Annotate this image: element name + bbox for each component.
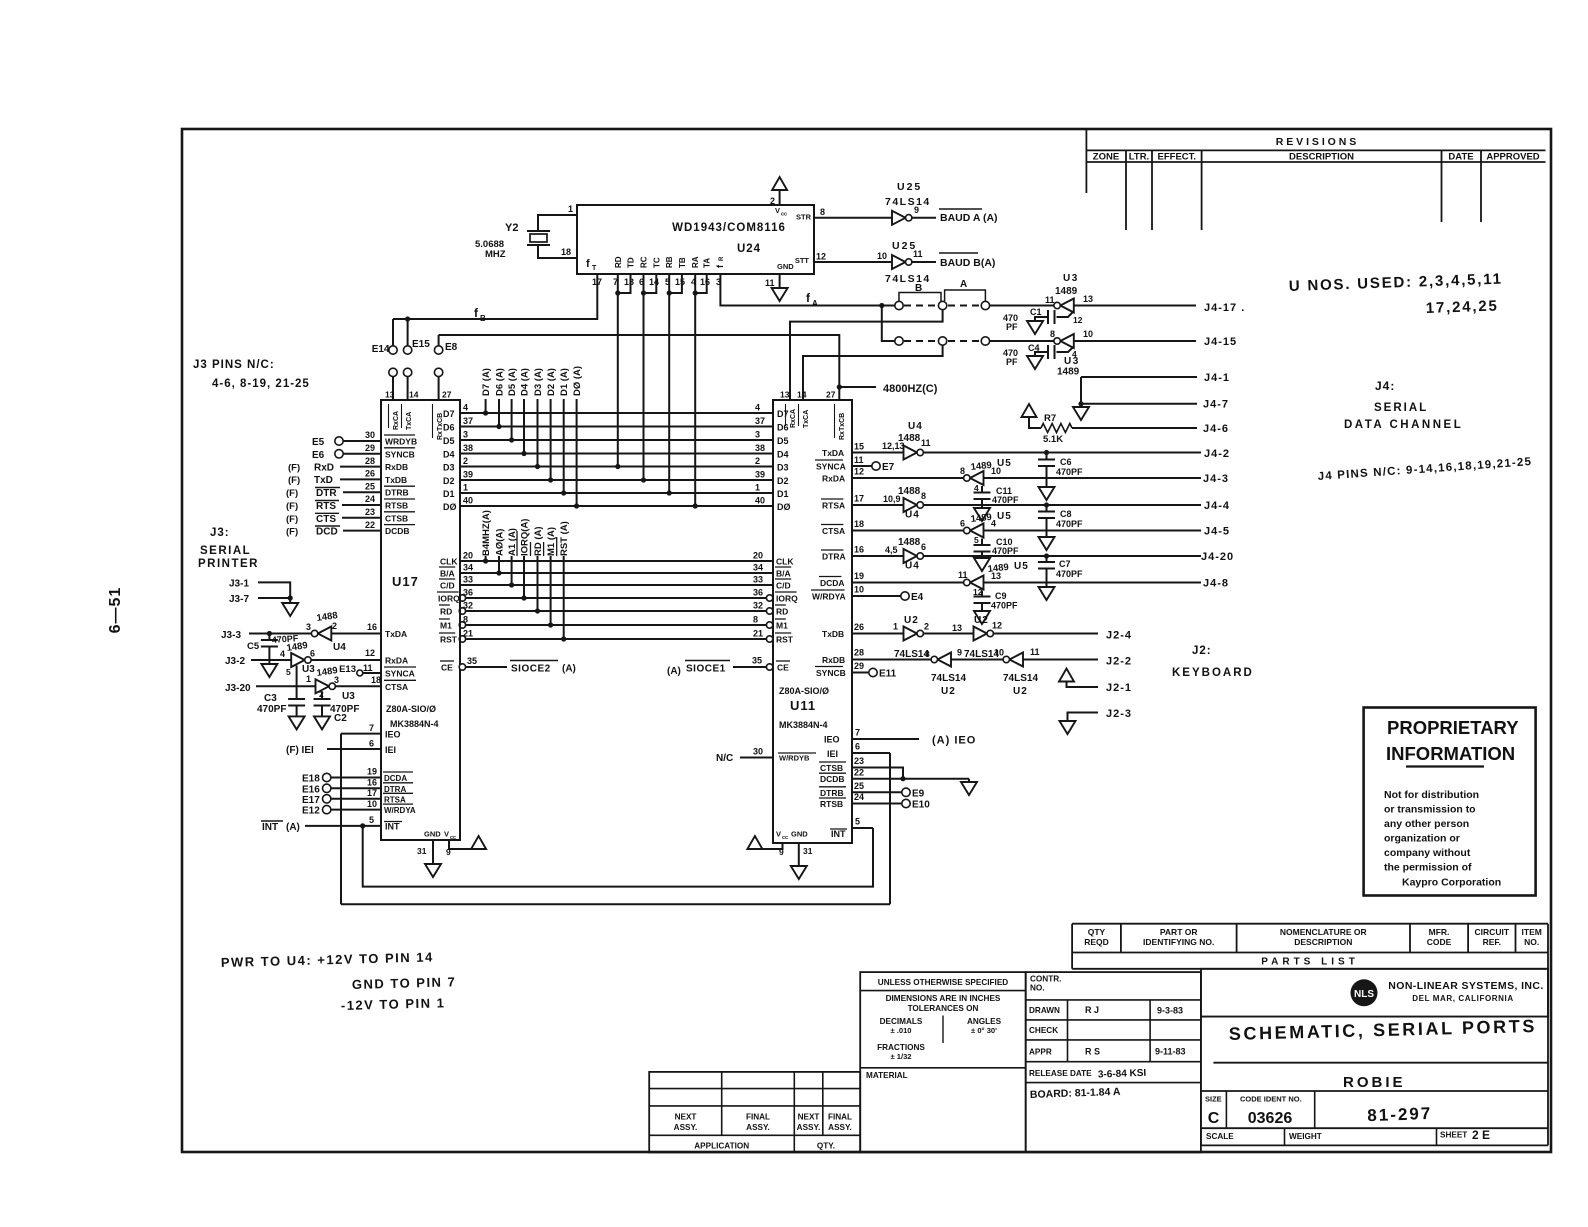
svg-text:U2: U2 — [941, 686, 956, 697]
svg-text:U3: U3 — [1064, 356, 1080, 367]
svg-text:TA: TA — [703, 258, 712, 268]
capacitor C5 470PF on J3-3 — [268, 634, 270, 641]
svg-text:E12: E12 — [302, 806, 320, 817]
resistor R7 5.1K pullup to J4-6 — [1022, 404, 1037, 417]
svg-text:31: 31 — [417, 846, 427, 856]
svg-text:10: 10 — [854, 585, 864, 595]
svg-text:10: 10 — [367, 799, 377, 809]
svg-text:11: 11 — [765, 278, 775, 288]
svg-text:SIOCE2: SIOCE2 — [511, 664, 551, 675]
svg-text:D2: D2 — [777, 476, 789, 486]
svg-text:(A) IEO: (A) IEO — [932, 735, 976, 747]
svg-text:D6: D6 — [443, 423, 455, 433]
ground stub J2-3 — [1068, 713, 1099, 722]
svg-text:30: 30 — [365, 430, 375, 440]
svg-text:470PF: 470PF — [1056, 467, 1083, 477]
svg-text:6: 6 — [921, 542, 926, 552]
inverter U2 74LS14 pins 9-8 — [938, 653, 952, 667]
svg-text:(F): (F) — [286, 514, 298, 525]
svg-text:27: 27 — [442, 390, 452, 400]
svg-text:D5: D5 — [777, 436, 789, 446]
svg-text:29: 29 — [365, 443, 375, 453]
svg-text:B: B — [480, 314, 486, 323]
svg-text:RB: RB — [665, 256, 674, 268]
svg-text:C2: C2 — [334, 713, 347, 724]
svg-text:74LS14: 74LS14 — [885, 196, 931, 208]
svg-text:33: 33 — [463, 575, 473, 585]
svg-text:10: 10 — [1083, 329, 1093, 339]
net label BAUD A (A) — [939, 208, 982, 210]
svg-text:C5: C5 — [247, 641, 260, 652]
U24 pins 16/4 tie loop — [695, 274, 707, 293]
capacitor C6 470PF on J4-2 line — [1044, 450, 1049, 455]
IC U11 Z80A-SIO/0 serial data channel + keyboard — [773, 400, 852, 843]
svg-text:2: 2 — [332, 621, 337, 631]
drawing frame border — [182, 129, 1551, 1152]
svg-text:D4 (A): D4 (A) — [520, 368, 531, 396]
svg-text:-12V TO PIN 1: -12V TO PIN 1 — [341, 995, 446, 1013]
svg-text:7: 7 — [369, 723, 374, 733]
svg-text:SIOCE1: SIOCE1 — [686, 664, 726, 675]
svg-text:INT: INT — [831, 829, 846, 839]
svg-text:PARTS LIST: PARTS LIST — [1261, 957, 1359, 968]
svg-text:TxCA: TxCA — [803, 410, 810, 428]
svg-text:SYNCB: SYNCB — [385, 449, 415, 459]
svg-text:W/RDYA: W/RDYA — [812, 592, 846, 602]
svg-text:DRAWN: DRAWN — [1029, 1006, 1060, 1015]
svg-text:Z80A-SIO/Ø: Z80A-SIO/Ø — [779, 686, 829, 696]
svg-text:CTSB: CTSB — [385, 513, 408, 523]
svg-text:32: 32 — [753, 601, 763, 611]
net label BAUD B (A) — [939, 252, 978, 254]
svg-text:C/D: C/D — [440, 581, 455, 591]
svg-text:40: 40 — [755, 496, 765, 506]
svg-text:SCALE: SCALE — [1206, 1132, 1234, 1141]
svg-text:35: 35 — [467, 656, 477, 666]
IC U17 Z80A-SIO/0 serial printer channel — [381, 400, 460, 840]
svg-text:D7 (A): D7 (A) — [481, 368, 492, 396]
svg-text:12: 12 — [365, 648, 375, 658]
capacitor C9 470PF on U5 response pin — [981, 591, 983, 597]
svg-text:18: 18 — [561, 247, 571, 257]
inverter U5 1489 pins 10-8 RxDA receiver — [852, 477, 967, 479]
svg-text:RxTxCB: RxTxCB — [839, 413, 846, 440]
svg-text:3: 3 — [306, 622, 311, 632]
svg-text:E14: E14 — [372, 344, 390, 355]
svg-text:CE: CE — [777, 663, 789, 673]
jumper bracket B — [899, 293, 941, 302]
svg-text:IEO: IEO — [824, 735, 840, 745]
svg-text:25: 25 — [365, 482, 375, 492]
svg-text:470PF: 470PF — [992, 546, 1019, 556]
svg-text:RxCA: RxCA — [393, 411, 400, 430]
U24 GND pin 11 ground — [779, 274, 781, 288]
svg-text:5: 5 — [369, 815, 374, 825]
svg-text:TxD: TxD — [314, 475, 333, 486]
svg-text:R S: R S — [1085, 1047, 1100, 1057]
svg-text:D4: D4 — [443, 450, 455, 460]
svg-text:U4: U4 — [333, 642, 346, 653]
svg-text:13: 13 — [624, 277, 634, 287]
svg-text:E5: E5 — [312, 437, 325, 448]
svg-text:PROPRIETARY: PROPRIETARY — [1387, 717, 1519, 738]
svg-text:14: 14 — [649, 277, 659, 287]
svg-text:J3-7: J3-7 — [229, 594, 249, 605]
svg-text:C3: C3 — [264, 693, 277, 704]
svg-text:4: 4 — [755, 403, 760, 413]
svg-text:DATA CHANNEL: DATA CHANNEL — [1344, 419, 1463, 431]
svg-text:C8: C8 — [1060, 509, 1072, 519]
svg-text:D7: D7 — [777, 409, 789, 419]
svg-text:AØ(A): AØ(A) — [495, 529, 506, 556]
svg-text:7: 7 — [855, 728, 860, 738]
svg-text:D3: D3 — [777, 463, 789, 473]
svg-text:TC: TC — [652, 257, 661, 268]
svg-text:N/C: N/C — [716, 753, 733, 764]
wire U11 IEO pin 7 to (A) IEO — [852, 738, 919, 740]
svg-text:16: 16 — [854, 545, 864, 555]
svg-text:U4: U4 — [905, 561, 920, 572]
svg-text:QTY: QTY — [1088, 927, 1106, 937]
svg-text:10: 10 — [994, 648, 1004, 658]
svg-text:D3 (A): D3 (A) — [533, 368, 544, 396]
svg-text:CHECK: CHECK — [1029, 1026, 1058, 1035]
jumper circle E9 on U11 DTRB pin 25 — [852, 791, 902, 793]
svg-text:NOMENCLATURE OR: NOMENCLATURE OR — [1280, 927, 1367, 937]
svg-text:RC: RC — [640, 256, 649, 268]
svg-text:15: 15 — [675, 277, 685, 287]
svg-text:Not for distribution: Not for distribution — [1384, 789, 1479, 801]
svg-text:J2-1: J2-1 — [1106, 682, 1132, 694]
svg-text:39: 39 — [755, 470, 765, 480]
svg-text:E9: E9 — [912, 789, 925, 800]
svg-text:ASSY.: ASSY. — [746, 1123, 770, 1132]
svg-text:organization or: organization or — [1384, 833, 1460, 845]
inverter U2 74LS14 pins 1-2 — [904, 627, 918, 641]
svg-text:U24: U24 — [737, 243, 761, 255]
svg-text:CONTR.: CONTR. — [1030, 975, 1061, 984]
svg-text:37: 37 — [755, 416, 765, 426]
jumper circle E13 to U17 SYNCA pin 11 — [357, 670, 363, 676]
svg-text:R E V I S I O N S: R E V I S I O N S — [1276, 136, 1357, 148]
svg-text:22: 22 — [365, 520, 375, 530]
svg-text:28: 28 — [365, 456, 375, 466]
svg-text:GND: GND — [424, 830, 441, 839]
svg-text:U4: U4 — [905, 510, 920, 521]
svg-text:(F): (F) — [286, 527, 298, 538]
jumper E14 (fB to U17 RxCA) — [392, 319, 394, 346]
svg-text:17: 17 — [367, 788, 377, 798]
svg-text:9: 9 — [914, 205, 919, 215]
svg-text:CLK: CLK — [440, 557, 458, 567]
svg-text:BAUD B(A): BAUD B(A) — [940, 257, 995, 269]
svg-text:11: 11 — [363, 663, 373, 673]
svg-text:6: 6 — [855, 742, 860, 752]
jumper circle E7 on U11 SYNCA pin 11 — [852, 465, 872, 467]
svg-text:13: 13 — [780, 390, 790, 400]
svg-text:DCDB: DCDB — [385, 526, 410, 536]
wire and label 4800HZ(C) — [839, 386, 876, 388]
svg-text:± 1/32: ± 1/32 — [890, 1052, 911, 1061]
svg-text:E4: E4 — [911, 592, 924, 603]
svg-text:E16: E16 — [302, 784, 320, 795]
svg-text:C: C — [1208, 1110, 1220, 1127]
svg-text:Kaypro Corporation: Kaypro Corporation — [1402, 877, 1501, 889]
svg-text:M1 (A): M1 (A) — [546, 527, 557, 556]
inverter U4 1488 pins 12,13-11 TxDA driver — [904, 446, 918, 460]
wire fB from U24 pin 17 — [393, 274, 597, 319]
svg-text:J2-2: J2-2 — [1106, 656, 1132, 668]
svg-text:SIZE: SIZE — [1205, 1095, 1222, 1104]
svg-text:21: 21 — [753, 629, 763, 639]
svg-text:B/A: B/A — [776, 569, 791, 579]
ground tie J4-1 / J4-7 — [1081, 376, 1197, 378]
svg-text:IEO: IEO — [385, 730, 401, 740]
svg-text:29: 29 — [854, 661, 864, 671]
svg-text:CTSB: CTSB — [820, 763, 843, 773]
svg-text:M1: M1 — [776, 621, 788, 631]
svg-text:9: 9 — [446, 847, 451, 857]
svg-text:J4:: J4: — [1375, 379, 1395, 393]
svg-text:19: 19 — [854, 571, 864, 581]
jumper row B/A upper (channel A clock select) — [895, 301, 903, 309]
svg-text:CTS: CTS — [316, 514, 336, 525]
svg-text:RTSB: RTSB — [820, 799, 843, 809]
svg-text:(F) IEI: (F) IEI — [286, 745, 314, 756]
svg-text:Y2: Y2 — [505, 222, 518, 234]
capacitor C1 470PF on U3 response pin — [1057, 311, 1074, 317]
svg-text:B4MHZ(A): B4MHZ(A) — [481, 510, 492, 556]
svg-text:RA: RA — [691, 256, 700, 268]
svg-text:E13: E13 — [339, 664, 356, 675]
jumper circle E18 to U17 DCDA — [323, 773, 331, 781]
svg-text:U2: U2 — [974, 615, 989, 626]
svg-text:26: 26 — [854, 622, 864, 632]
svg-text:3: 3 — [755, 430, 760, 440]
svg-text:CTSA: CTSA — [822, 526, 845, 536]
svg-text:RST: RST — [440, 635, 458, 645]
capacitor C2 470PF on U3 response pin — [321, 692, 323, 699]
jumper circle E10 on U11 RTSB pin 24 — [852, 803, 902, 805]
U24 pins 13/7 tie loop — [618, 274, 631, 293]
svg-text:TxDA: TxDA — [822, 448, 844, 458]
svg-text:1489: 1489 — [970, 512, 992, 525]
svg-text:WEIGHT: WEIGHT — [1289, 1132, 1322, 1141]
jumper E15 (fB to U17 TxCA) — [405, 316, 410, 321]
svg-text:40: 40 — [463, 496, 473, 506]
svg-text:81-297: 81-297 — [1367, 1104, 1433, 1125]
svg-text:E17: E17 — [302, 795, 320, 806]
svg-text:W/RDYB: W/RDYB — [779, 754, 810, 763]
svg-text:4: 4 — [463, 403, 468, 413]
svg-text:SERIAL: SERIAL — [200, 545, 251, 557]
svg-text:IORQ(A): IORQ(A) — [520, 519, 531, 556]
svg-text:R7: R7 — [1044, 413, 1056, 424]
svg-text:PF: PF — [1006, 357, 1018, 367]
svg-text:14: 14 — [409, 390, 419, 400]
svg-text:J4-2: J4-2 — [1204, 448, 1230, 460]
wire U24 RB/TB to data bus D1 — [668, 274, 670, 493]
svg-text:11: 11 — [913, 249, 923, 259]
svg-text:GND: GND — [777, 262, 794, 271]
svg-text:SERIAL: SERIAL — [1374, 402, 1428, 414]
svg-text:DØ: DØ — [777, 502, 791, 512]
jumper row lower (channel B external clock) — [895, 337, 903, 345]
svg-text:± 0° 30': ± 0° 30' — [971, 1026, 997, 1035]
svg-text:D1: D1 — [443, 489, 455, 499]
svg-text:18: 18 — [371, 675, 381, 685]
parts list header strip — [1072, 924, 1548, 969]
svg-text:J4-20: J4-20 — [1201, 551, 1234, 563]
svg-text:9: 9 — [779, 847, 784, 857]
svg-text:CODE: CODE — [1427, 937, 1452, 947]
svg-text:J4-8: J4-8 — [1203, 578, 1229, 590]
svg-text:C/D: C/D — [776, 581, 791, 591]
wire U11 RxDB pin 28 from 74LS14 pair from J2-2 — [852, 659, 934, 661]
svg-text:INFORMATION: INFORMATION — [1386, 743, 1515, 764]
svg-text:32: 32 — [463, 601, 473, 611]
svg-text:J4-3: J4-3 — [1203, 473, 1229, 485]
svg-text:1488: 1488 — [898, 486, 921, 497]
svg-text:(F): (F) — [286, 488, 298, 499]
jumper E8 (U17 RxTxCB to 4800HZ net) — [438, 335, 440, 346]
svg-text:RD (A): RD (A) — [533, 526, 544, 556]
svg-text:E10: E10 — [912, 800, 930, 811]
svg-text:1: 1 — [893, 622, 898, 632]
svg-text:SYNCA: SYNCA — [385, 669, 415, 679]
svg-text:V: V — [444, 830, 449, 839]
jumper circle E11 on U11 SYNCB pin 29 — [852, 672, 869, 674]
svg-text:4,5: 4,5 — [885, 545, 898, 555]
svg-text:DCD: DCD — [316, 527, 338, 538]
svg-text:RTSB: RTSB — [385, 501, 408, 511]
svg-text:NON-LINEAR SYSTEMS, INC.: NON-LINEAR SYSTEMS, INC. — [1388, 980, 1543, 992]
svg-text:(A): (A) — [667, 666, 681, 677]
svg-text:DØ: DØ — [443, 502, 457, 512]
wire fA from U24 pin 3 — [720, 274, 894, 306]
svg-text:CLK: CLK — [776, 557, 794, 567]
svg-text:SHEET: SHEET — [1440, 1131, 1467, 1140]
svg-text:TxCA: TxCA — [406, 412, 413, 430]
svg-text:11: 11 — [921, 438, 931, 448]
svg-text:GND TO PIN 7: GND TO PIN 7 — [352, 974, 457, 992]
svg-text:8: 8 — [921, 491, 926, 501]
jumper bracket A — [945, 290, 986, 301]
svg-text:CIRCUIT: CIRCUIT — [1475, 927, 1510, 937]
svg-text:RxDA: RxDA — [822, 474, 845, 484]
inverter U5 1489 pins 13-11 DCDA receiver — [852, 582, 967, 584]
svg-text:V: V — [776, 830, 781, 839]
svg-text:31: 31 — [803, 846, 813, 856]
svg-text:4800HZ(C): 4800HZ(C) — [883, 383, 938, 395]
svg-text:A: A — [812, 299, 818, 308]
svg-text:12: 12 — [992, 621, 1002, 631]
svg-text:36: 36 — [753, 588, 763, 598]
svg-text:CE: CE — [441, 663, 453, 673]
svg-text:U5: U5 — [997, 511, 1012, 522]
U24 Vcc pin 2 power arrow — [779, 190, 781, 205]
svg-text:8: 8 — [960, 466, 965, 476]
svg-text:C9: C9 — [995, 591, 1007, 601]
svg-text:D2: D2 — [443, 476, 455, 486]
svg-text:5.1K: 5.1K — [1043, 434, 1063, 445]
svg-text:(A): (A) — [286, 822, 300, 833]
svg-text:20: 20 — [463, 551, 473, 561]
svg-text:J4-7: J4-7 — [1203, 399, 1229, 411]
svg-text:470PF: 470PF — [991, 601, 1018, 611]
svg-text:U3: U3 — [342, 691, 355, 702]
svg-text:TxDB: TxDB — [822, 629, 844, 639]
svg-text:17,24,25: 17,24,25 — [1426, 297, 1499, 317]
svg-text:U4: U4 — [908, 421, 923, 432]
svg-text:1: 1 — [306, 674, 311, 684]
svg-text:DCDB: DCDB — [820, 774, 845, 784]
svg-text:6—51: 6—51 — [107, 587, 124, 634]
svg-text:CTSA: CTSA — [385, 682, 408, 692]
svg-text:DØ (A): DØ (A) — [572, 366, 583, 396]
svg-text:U25: U25 — [897, 181, 922, 193]
inverter U3 1489 pins 1-3 CTSA receiver — [316, 679, 330, 693]
wire fA to channel B jumper row — [882, 306, 895, 342]
svg-text:STT: STT — [795, 256, 810, 265]
svg-text:ITEM: ITEM — [1522, 927, 1542, 937]
svg-text:34: 34 — [463, 563, 473, 573]
svg-text:37: 37 — [463, 416, 473, 426]
svg-text:DCDA: DCDA — [820, 578, 845, 588]
svg-text:11: 11 — [1045, 295, 1055, 305]
svg-text:J2:: J2: — [1192, 645, 1212, 657]
svg-text:74LS14: 74LS14 — [1003, 673, 1038, 684]
svg-text:10: 10 — [877, 251, 887, 261]
svg-text:U5: U5 — [997, 458, 1012, 469]
svg-text:1489: 1489 — [987, 562, 1009, 575]
svg-text:TxDB: TxDB — [385, 475, 407, 485]
U17 ground pin 31 — [432, 840, 434, 864]
svg-text:KEYBOARD: KEYBOARD — [1172, 667, 1254, 679]
svg-text:RST (A): RST (A) — [559, 521, 570, 556]
svg-text:U11: U11 — [790, 698, 816, 713]
svg-text:8: 8 — [463, 615, 468, 625]
U11 Vcc pin 9 — [755, 843, 783, 849]
svg-text:J2-3: J2-3 — [1106, 708, 1132, 720]
svg-text:U3: U3 — [1063, 273, 1079, 284]
svg-text:C1: C1 — [1030, 307, 1042, 317]
svg-text:470PF: 470PF — [1056, 569, 1083, 579]
svg-text:W/RDYA: W/RDYA — [384, 806, 416, 815]
svg-text:38: 38 — [755, 443, 765, 453]
approval block CONTR/DRAWN/CHECK/APPR — [1026, 972, 1201, 1152]
svg-text:28: 28 — [854, 648, 864, 658]
svg-text:J3-2: J3-2 — [225, 656, 245, 667]
svg-text:11: 11 — [854, 455, 864, 465]
tolerance block UNLESS OTHERWISE SPECIFIED — [860, 972, 1025, 1152]
svg-text:UNLESS OTHERWISE SPECIFIED: UNLESS OTHERWISE SPECIFIED — [878, 978, 1008, 987]
svg-text:cc: cc — [450, 835, 456, 841]
svg-text:D1 (A): D1 (A) — [559, 368, 570, 396]
inverter U4 1488 pins 3-2 TxDA driver — [318, 627, 332, 641]
wire U11 INT pin 5 to common INT net — [852, 827, 873, 829]
svg-text:the permission of: the permission of — [1384, 862, 1472, 874]
svg-text:STR: STR — [796, 213, 812, 222]
data bus rows D7-D0 between U17 and U11 — [460, 412, 773, 414]
svg-text:NLS: NLS — [1354, 989, 1374, 1000]
svg-text:DESCRIPTION: DESCRIPTION — [1294, 937, 1352, 947]
svg-text:470PF: 470PF — [992, 495, 1019, 505]
svg-text:DTRB: DTRB — [820, 788, 844, 798]
svg-text:f: f — [586, 258, 590, 270]
svg-text:PF: PF — [1006, 322, 1018, 332]
svg-text:21: 21 — [463, 629, 473, 639]
